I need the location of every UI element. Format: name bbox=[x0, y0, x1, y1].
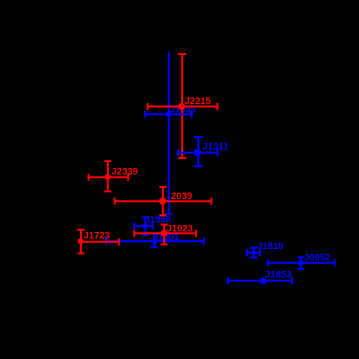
blue point J0952 horizontal error bar bbox=[268, 259, 335, 266]
red marker J1723 bbox=[78, 238, 84, 244]
svg-text:J1853: J1853 bbox=[265, 270, 291, 281]
blue point J1311 vertical error bar bbox=[194, 137, 203, 166]
blue point J1311 horizontal error bar bbox=[178, 149, 218, 156]
svg-text:J1723: J1723 bbox=[84, 231, 110, 242]
blue marker J1653 bbox=[166, 111, 172, 117]
red point J1723 vertical error bar bbox=[78, 230, 85, 254]
red marker J1023 bbox=[161, 230, 168, 237]
red point J1023 horizontal error bar bbox=[134, 230, 196, 237]
red point 2030 vertical error bar bbox=[159, 187, 166, 215]
blue point J1653 vertical error bar (long, cap at bottom only) bbox=[165, 52, 172, 214]
red point J2215 horizontal error bar bbox=[148, 103, 218, 110]
red point J2215 vertical error bar bbox=[178, 54, 186, 158]
red point J1023 vertical error bar bbox=[161, 225, 168, 245]
blue point J1810 horizontal error bar bbox=[247, 249, 260, 256]
red marker J2215 bbox=[178, 103, 185, 110]
svg-text:J2339: J2339 bbox=[112, 167, 138, 178]
blue marker J1301 bbox=[152, 239, 157, 244]
blue point J1301 long horizontal error bar bbox=[106, 238, 204, 245]
red point 2030 horizontal error bar bbox=[115, 198, 212, 205]
svg-text:J2215: J2215 bbox=[185, 96, 212, 107]
blue point J1301 vertical error bar bbox=[151, 234, 158, 248]
blue point J0952 vertical error bar bbox=[297, 257, 304, 269]
red marker J2339 bbox=[105, 174, 111, 180]
red point J2339 vertical error bar bbox=[104, 161, 111, 191]
blue point J1810 vertical error bar bbox=[250, 248, 257, 258]
blue point J1959 horizontal error bar bbox=[134, 223, 153, 230]
blue point J1653 horizontal error bar bbox=[145, 111, 192, 118]
red marker 2030 bbox=[159, 198, 166, 205]
blue point J1959 vertical error bar (under red) bbox=[142, 218, 149, 236]
svg-text:J1023: J1023 bbox=[167, 223, 193, 234]
blue marker J1311 bbox=[194, 149, 202, 157]
svg-text:2039: 2039 bbox=[171, 191, 192, 202]
svg-text:J1311: J1311 bbox=[203, 142, 230, 153]
blue marker J0952 bbox=[298, 260, 304, 266]
svg-text:J1810: J1810 bbox=[257, 241, 283, 252]
blue marker J1853 bbox=[260, 278, 267, 285]
blue marker J1959 bbox=[142, 223, 148, 229]
svg-text:J0952: J0952 bbox=[304, 252, 330, 263]
blue marker J1810 bbox=[251, 250, 256, 255]
blue point J1853 horizontal error bar bbox=[228, 277, 292, 284]
red point J2339 horizontal error bar bbox=[89, 174, 129, 181]
red point J1723 horizontal error bar (right side) bbox=[78, 238, 119, 245]
